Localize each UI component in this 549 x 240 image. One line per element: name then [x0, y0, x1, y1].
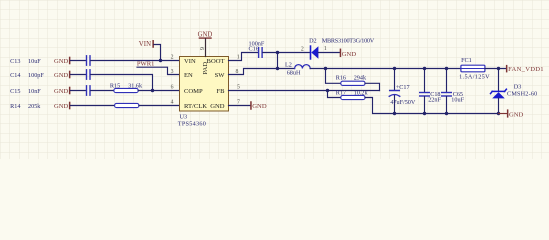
svg-text:FAN_VDD1: FAN_VDD1: [508, 66, 543, 73]
capacitor C14: [87, 70, 91, 79]
junction node gnd/C65: [445, 112, 448, 115]
svg-text:SW: SW: [215, 72, 226, 79]
wire node to D2 cathode: [278, 52, 311, 54]
svg-text:1.5A/125V: 1.5A/125V: [459, 73, 490, 80]
svg-text:TPS54360: TPS54360: [178, 121, 206, 128]
wire R17 to ground rail: [365, 98, 499, 114]
wire C15 to R15: [91, 90, 114, 92]
svg-text:10uF: 10uF: [28, 58, 41, 65]
junction node rail/C18: [423, 67, 426, 70]
wire C16 to SW node: [263, 52, 278, 54]
capacitor C15: [87, 86, 91, 95]
wire FB node down to R17: [328, 91, 341, 98]
wire C14 to COMP net: [91, 75, 153, 91]
svg-text:C14: C14: [10, 72, 20, 79]
svg-text:10uF: 10uF: [451, 96, 464, 103]
wire BOOT pin1 to C16: [229, 53, 259, 61]
wire pin9 PAD to GND: [205, 39, 207, 57]
svg-text:CMSH2-60: CMSH2-60: [507, 91, 537, 98]
svg-text:GND: GND: [54, 88, 69, 95]
svg-text:VIN: VIN: [184, 58, 196, 65]
junction node rail/C17: [393, 67, 396, 70]
svg-text:1: 1: [237, 54, 240, 60]
svg-text:PAD: PAD: [202, 62, 209, 75]
svg-text:GND: GND: [252, 103, 267, 110]
wire C13 to VIN pin2 (net VIN): [91, 60, 180, 62]
svg-text:2: 2: [301, 46, 304, 52]
wire GND pin7: [229, 105, 251, 107]
wire R16 to FB net: [365, 83, 380, 90]
svg-text:GND: GND: [54, 58, 69, 65]
junction node gnd/C18: [423, 112, 426, 115]
capacitor C65 10uF: [446, 69, 448, 93]
svg-text:205k: 205k: [28, 103, 41, 110]
svg-text:RT/CLK: RT/CLK: [184, 103, 207, 110]
wire SW pin8 to L2: [229, 69, 295, 75]
svg-text:FB: FB: [216, 88, 225, 95]
wire D2 anode to GND: [318, 52, 339, 54]
junction node Vout/R16: [324, 67, 327, 70]
junction node D3/rail: [497, 67, 500, 70]
svg-text:FC1: FC1: [461, 57, 472, 64]
svg-text:BOOT: BOOT: [207, 58, 225, 65]
wire VIN port to pin2 net: [154, 45, 161, 61]
svg-text:D2: D2: [309, 38, 317, 45]
svg-text:R14: R14: [10, 103, 20, 110]
svg-text:68uH: 68uH: [287, 70, 301, 77]
svg-text:GND: GND: [342, 51, 357, 58]
svg-text:C13: C13: [10, 58, 20, 65]
wire GND to C13: [70, 60, 85, 62]
svg-text:10nF: 10nF: [28, 88, 41, 95]
wire SW node down to L2 row: [277, 53, 279, 69]
ground port GND (pin7): [250, 101, 252, 110]
wire Vout down to R16: [326, 69, 341, 84]
svg-text:GND: GND: [509, 111, 524, 118]
wire FC1 to output port: [485, 68, 506, 70]
svg-text:GND: GND: [54, 72, 69, 79]
svg-text:C16: C16: [249, 45, 259, 52]
svg-text:1: 1: [324, 46, 327, 52]
junction node VIN/pin2: [159, 59, 162, 62]
svg-text:2: 2: [171, 54, 174, 60]
wire GND to C15: [70, 90, 85, 92]
svg-text:8: 8: [236, 69, 239, 75]
ground port GND (output rail): [499, 113, 507, 115]
svg-text:EN: EN: [184, 72, 193, 79]
svg-text:5: 5: [237, 84, 240, 90]
wire PWR1 to EN pin3: [137, 67, 180, 74]
junction node FB/R17: [326, 89, 329, 92]
svg-text:C15: C15: [10, 88, 20, 95]
capacitor C13: [87, 56, 91, 65]
svg-text:6: 6: [171, 84, 174, 90]
svg-text:D3: D3: [514, 84, 522, 91]
svg-text:3: 3: [171, 69, 174, 75]
svg-text:PWR1: PWR1: [137, 61, 155, 68]
svg-text:47uF/50V: 47uF/50V: [390, 99, 415, 106]
ground port GND (D2): [340, 49, 342, 58]
svg-text:VIN: VIN: [139, 41, 151, 48]
wire GND to C14: [70, 74, 85, 76]
wire R15 to COMP pin6: [138, 90, 179, 92]
junction node rail/C65: [445, 67, 448, 70]
junction node gnd rail end: [497, 112, 500, 115]
junction node bootcap/D2: [276, 51, 279, 54]
svg-text:100pF: 100pF: [28, 72, 44, 79]
svg-text:R16: R16: [336, 74, 346, 81]
junction node gnd/C17: [393, 112, 396, 115]
svg-text:4: 4: [171, 99, 174, 105]
capacitor C17 47uF/50V (polarized): [394, 69, 396, 91]
junction node COMP/C14: [151, 89, 154, 92]
svg-text:GND: GND: [210, 103, 225, 110]
capacitor C18 22nF: [424, 69, 426, 93]
sheet background: [0, 0, 549, 159]
wire L2 to output rail: [310, 68, 461, 70]
power port FAN_VDD1: [506, 65, 508, 73]
svg-text:U3: U3: [180, 114, 188, 121]
svg-text:COMP: COMP: [184, 88, 203, 95]
svg-text:7: 7: [237, 99, 240, 105]
svg-text:MBRS3100T3G/100V: MBRS3100T3G/100V: [322, 38, 375, 45]
resistor R14 205k: [115, 103, 139, 107]
wire GND to R14: [70, 105, 114, 107]
svg-text:294k: 294k: [354, 74, 367, 81]
svg-text:22nF: 22nF: [428, 96, 441, 103]
junction node SW/L2: [276, 67, 279, 70]
svg-text:GND: GND: [54, 103, 69, 110]
svg-text:L2: L2: [285, 62, 292, 69]
svg-text:GND: GND: [198, 31, 213, 38]
wire FB pin5: [229, 90, 380, 92]
wire R14 to RT/CLK pin4: [139, 105, 180, 107]
IC U3 TPS54360: [180, 57, 229, 112]
